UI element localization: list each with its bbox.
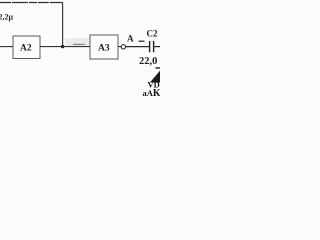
node A terminal circle: [121, 45, 125, 49]
paper background: [0, 0, 160, 110]
svg-text:A2: A2: [20, 44, 32, 54]
diode VD body (filled triangle, cut at right edge): [150, 70, 161, 83]
wire: feedback vertical drop: [62, 3, 64, 47]
svg-text:C2: C2: [147, 29, 158, 39]
svg-text:A3: A3: [98, 44, 110, 54]
scan smudge above wire between junction and A3: [65, 38, 90, 46]
diode VD cathode bar (cut at right edge): [156, 67, 162, 69]
wire: node A to C2: [126, 46, 149, 48]
svg-text:2,2μ: 2,2μ: [0, 13, 14, 22]
svg-text:22,0: 22,0: [139, 56, 157, 67]
block A3: [90, 35, 118, 59]
wire: input to A2: [0, 46, 13, 48]
node junction dot: [61, 45, 64, 48]
wire: A2 output to A3 input: [40, 46, 90, 48]
scan artifact dark dash above wire: [73, 43, 85, 45]
svg-text:аАК: аАК: [143, 88, 161, 99]
capacitor C2 polarity dash: [139, 40, 145, 42]
block A2: [13, 36, 40, 59]
capacitor C2 plates: [149, 41, 151, 52]
wire: top feedback horizontal: [0, 2, 63, 4]
wire: A3 output stub: [118, 46, 121, 48]
svg-text:A: A: [127, 34, 134, 44]
wire: C2 out to right edge: [154, 46, 160, 48]
